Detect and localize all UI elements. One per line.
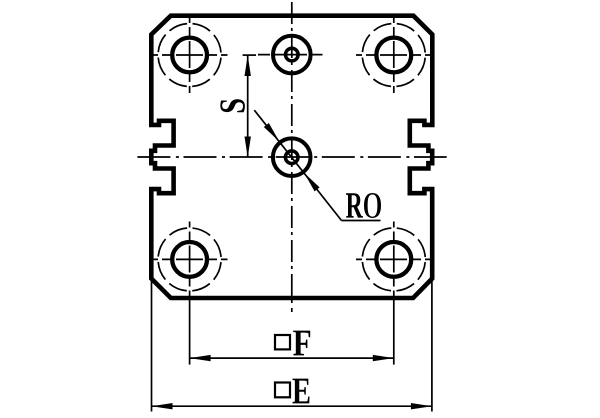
dimension S label xyxy=(220,99,245,112)
leader R0 xyxy=(254,110,380,220)
dimension E xyxy=(152,280,432,412)
top-left mounting hole xyxy=(152,17,228,93)
vertical centerline xyxy=(291,2,293,312)
dimension F xyxy=(190,293,394,365)
dimension S xyxy=(243,55,256,157)
top terminal hole xyxy=(258,36,323,74)
horizontal centerline xyxy=(137,156,446,158)
dimension F label square-F xyxy=(275,331,310,356)
dimension E label square-E xyxy=(275,379,310,404)
label R0 xyxy=(346,193,381,218)
center terminal hole xyxy=(273,138,311,176)
plate outline with chamfered corners and side mounting notches xyxy=(151,16,432,298)
bottom-right mounting hole xyxy=(356,222,432,294)
bottom-left mounting hole xyxy=(152,222,228,294)
top-right mounting hole xyxy=(356,17,432,93)
